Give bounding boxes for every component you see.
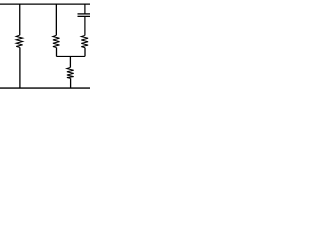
wire right branch lower lead — [84, 48, 86, 57]
resistor R4 — [67, 68, 74, 79]
wire bottom resistor upper lead — [69, 56, 71, 67]
wire middle branch upper lead — [55, 4, 57, 35]
wire right branch middle lead — [84, 16, 86, 35]
wire right branch upper lead — [84, 4, 86, 14]
capacitor C1 top plate — [78, 13, 91, 15]
wire left branch lower lead — [19, 47, 21, 88]
wire bottom resistor lower lead — [70, 78, 72, 88]
wire middle branch lower lead — [56, 48, 58, 57]
wire bottom bus — [0, 87, 90, 89]
capacitor C1 bottom plate — [78, 15, 91, 17]
resistor R2 — [53, 35, 60, 47]
wire top bus — [0, 3, 90, 5]
wire left branch upper lead — [19, 4, 21, 35]
wire junction bar — [56, 55, 85, 57]
resistor R3 — [81, 36, 88, 48]
resistor R1 — [16, 35, 22, 47]
